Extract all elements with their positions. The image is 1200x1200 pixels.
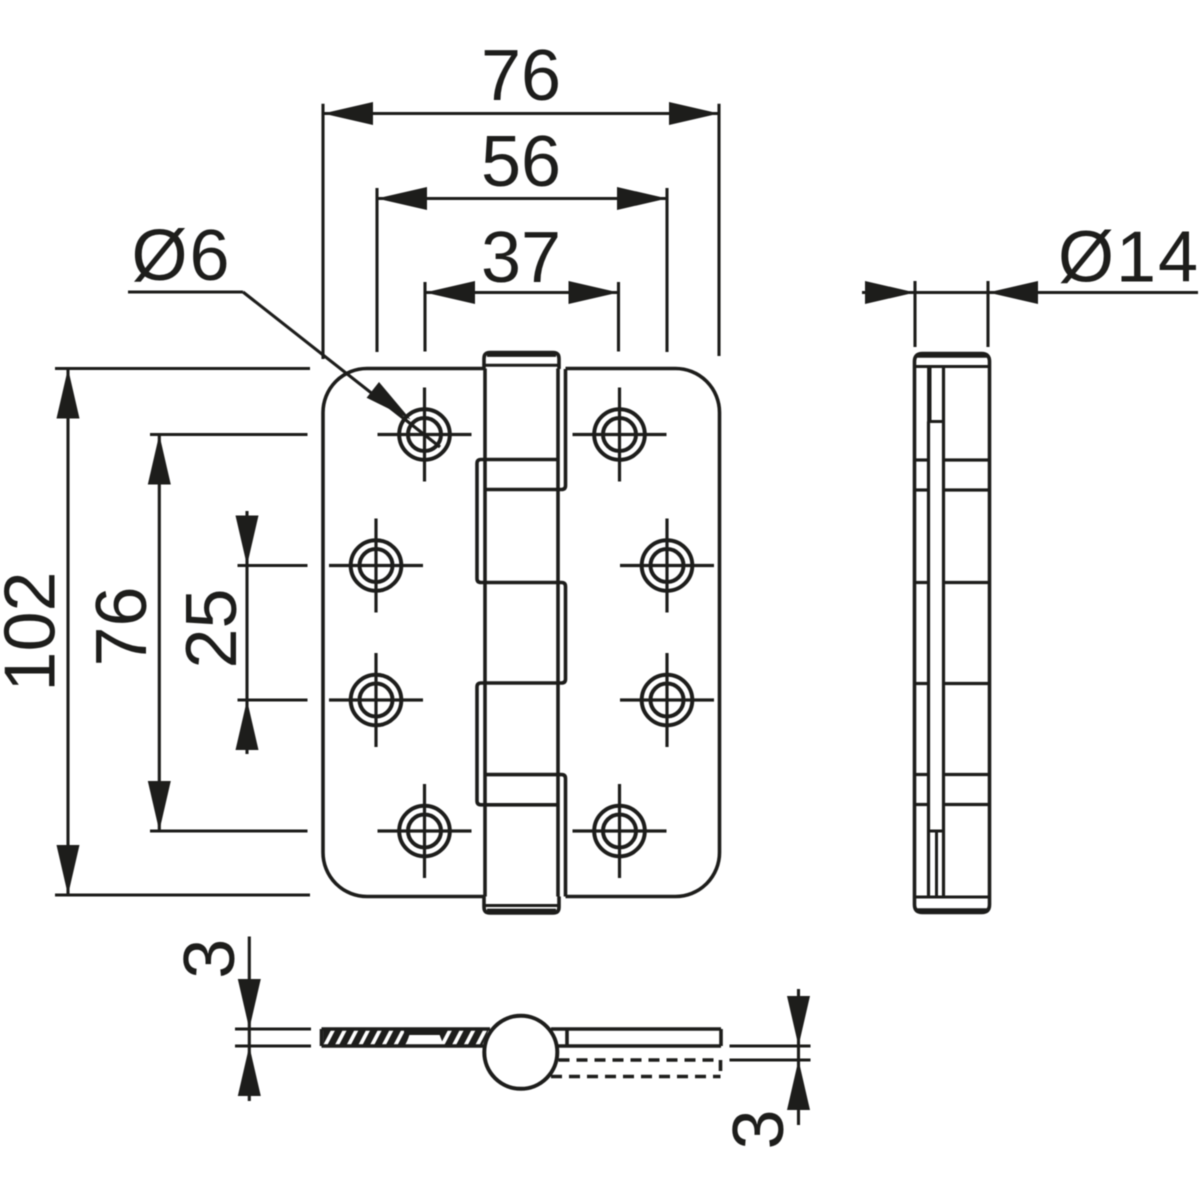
svg-text:3: 3 — [170, 939, 250, 979]
svg-text:56: 56 — [481, 122, 561, 202]
svg-text:76: 76 — [481, 36, 561, 116]
svg-text:Ø14: Ø14 — [1058, 218, 1200, 298]
svg-text:25: 25 — [172, 588, 252, 668]
svg-text:76: 76 — [82, 586, 162, 666]
svg-text:Ø6: Ø6 — [131, 216, 231, 296]
svg-text:102: 102 — [0, 571, 71, 691]
svg-text:3: 3 — [719, 1109, 799, 1149]
svg-text:37: 37 — [481, 218, 561, 298]
